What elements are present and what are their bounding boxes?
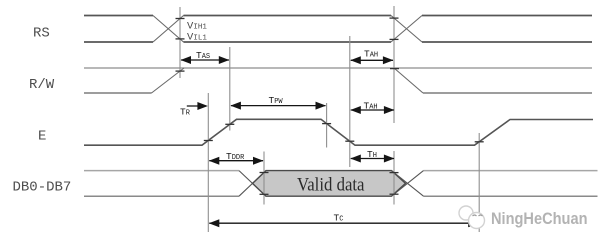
RS high rail left: [84, 15, 153, 17]
tick DB X1 lower: [260, 193, 269, 195]
arrow TAH1: [350, 56, 393, 64]
E trace: [84, 119, 593, 145]
tick E falling L6: [345, 140, 354, 142]
tick RS X2 upper: [390, 17, 399, 19]
tick RW rising: [176, 70, 185, 72]
arrow TAS: [181, 56, 230, 64]
svg-text:DB0-DB7: DB0-DB7: [13, 180, 72, 196]
svg-text:NingHeChuan: NingHeChuan: [491, 210, 588, 228]
tick DB X2 lower: [390, 193, 399, 195]
tick DB X2 upper: [390, 172, 399, 174]
tick DB X1 upper: [260, 172, 269, 174]
RW high rail full: [84, 67, 592, 69]
DB low rail left: [84, 195, 239, 197]
watermark logo marks: [473, 215, 483, 216]
tick RS X1 upper: [176, 18, 185, 20]
RW low rail right: [423, 92, 592, 94]
RS low rail mid: [184, 41, 392, 43]
RS high rail mid: [184, 15, 392, 17]
valid data hexagon: [253, 171, 406, 197]
svg-text:TDDR: TDDR: [226, 151, 245, 162]
tick E rising L2: [225, 123, 234, 125]
RS crossover X1: [153, 16, 184, 43]
ref line L4 x264: [263, 152, 265, 205]
ref line L6 x349.8: [349, 36, 351, 167]
ref line L2 x229.8: [229, 47, 231, 131]
arrow TR: [187, 102, 208, 110]
watermark logo circle small: [469, 213, 485, 229]
svg-text:TAH: TAH: [364, 101, 378, 112]
RS low rail left: [84, 41, 153, 43]
arrow TDDR: [209, 157, 264, 165]
DB high rail right: [424, 170, 598, 172]
RW rising edge: [152, 68, 185, 93]
svg-text:TAH: TAH: [364, 49, 378, 60]
DB crossover left: [239, 171, 266, 197]
RS crossover X2: [391, 16, 422, 43]
svg-text:RS: RS: [33, 26, 50, 42]
ref line L8 x394 lower: [393, 151, 395, 205]
tick RW falling: [390, 68, 399, 70]
ref line L7 x479.2: [478, 133, 480, 232]
svg-text:VIL1: VIL1: [187, 32, 207, 44]
svg-text:R/W: R/W: [29, 77, 55, 93]
tick E rising2 L7: [475, 141, 484, 143]
tick E falling L5: [322, 123, 331, 125]
svg-text:TAS: TAS: [196, 50, 210, 61]
ref line L3 x208.3: [207, 93, 209, 232]
ref line L1 x180: [179, 7, 181, 78]
svg-text:TPW: TPW: [269, 95, 284, 106]
DB low rail right: [424, 195, 598, 197]
RW falling edge: [394, 68, 423, 93]
svg-text:E: E: [38, 129, 46, 145]
arrow TAH2: [350, 106, 394, 114]
arrow TPW: [230, 102, 326, 110]
RS high rail right: [422, 15, 592, 17]
arrow TC: [209, 219, 479, 227]
tick RS X1 lower: [176, 38, 185, 40]
ref line L8 x394 upper: [393, 6, 395, 123]
DB crossover right: [392, 171, 424, 197]
arrow TH: [350, 155, 394, 163]
RW low rail left: [84, 92, 152, 94]
RS low rail right: [422, 41, 592, 43]
tick RS X2 lower: [390, 38, 399, 40]
svg-text:TC: TC: [334, 213, 344, 224]
svg-text:TR: TR: [180, 107, 191, 118]
watermark logo circle big: [459, 206, 473, 220]
ref line L5 x326.6: [326, 103, 328, 148]
tick E rising L3: [204, 140, 213, 142]
DB high rail left: [84, 170, 239, 172]
svg-text:Valid data: Valid data: [297, 175, 365, 196]
svg-text:TH: TH: [367, 149, 377, 160]
